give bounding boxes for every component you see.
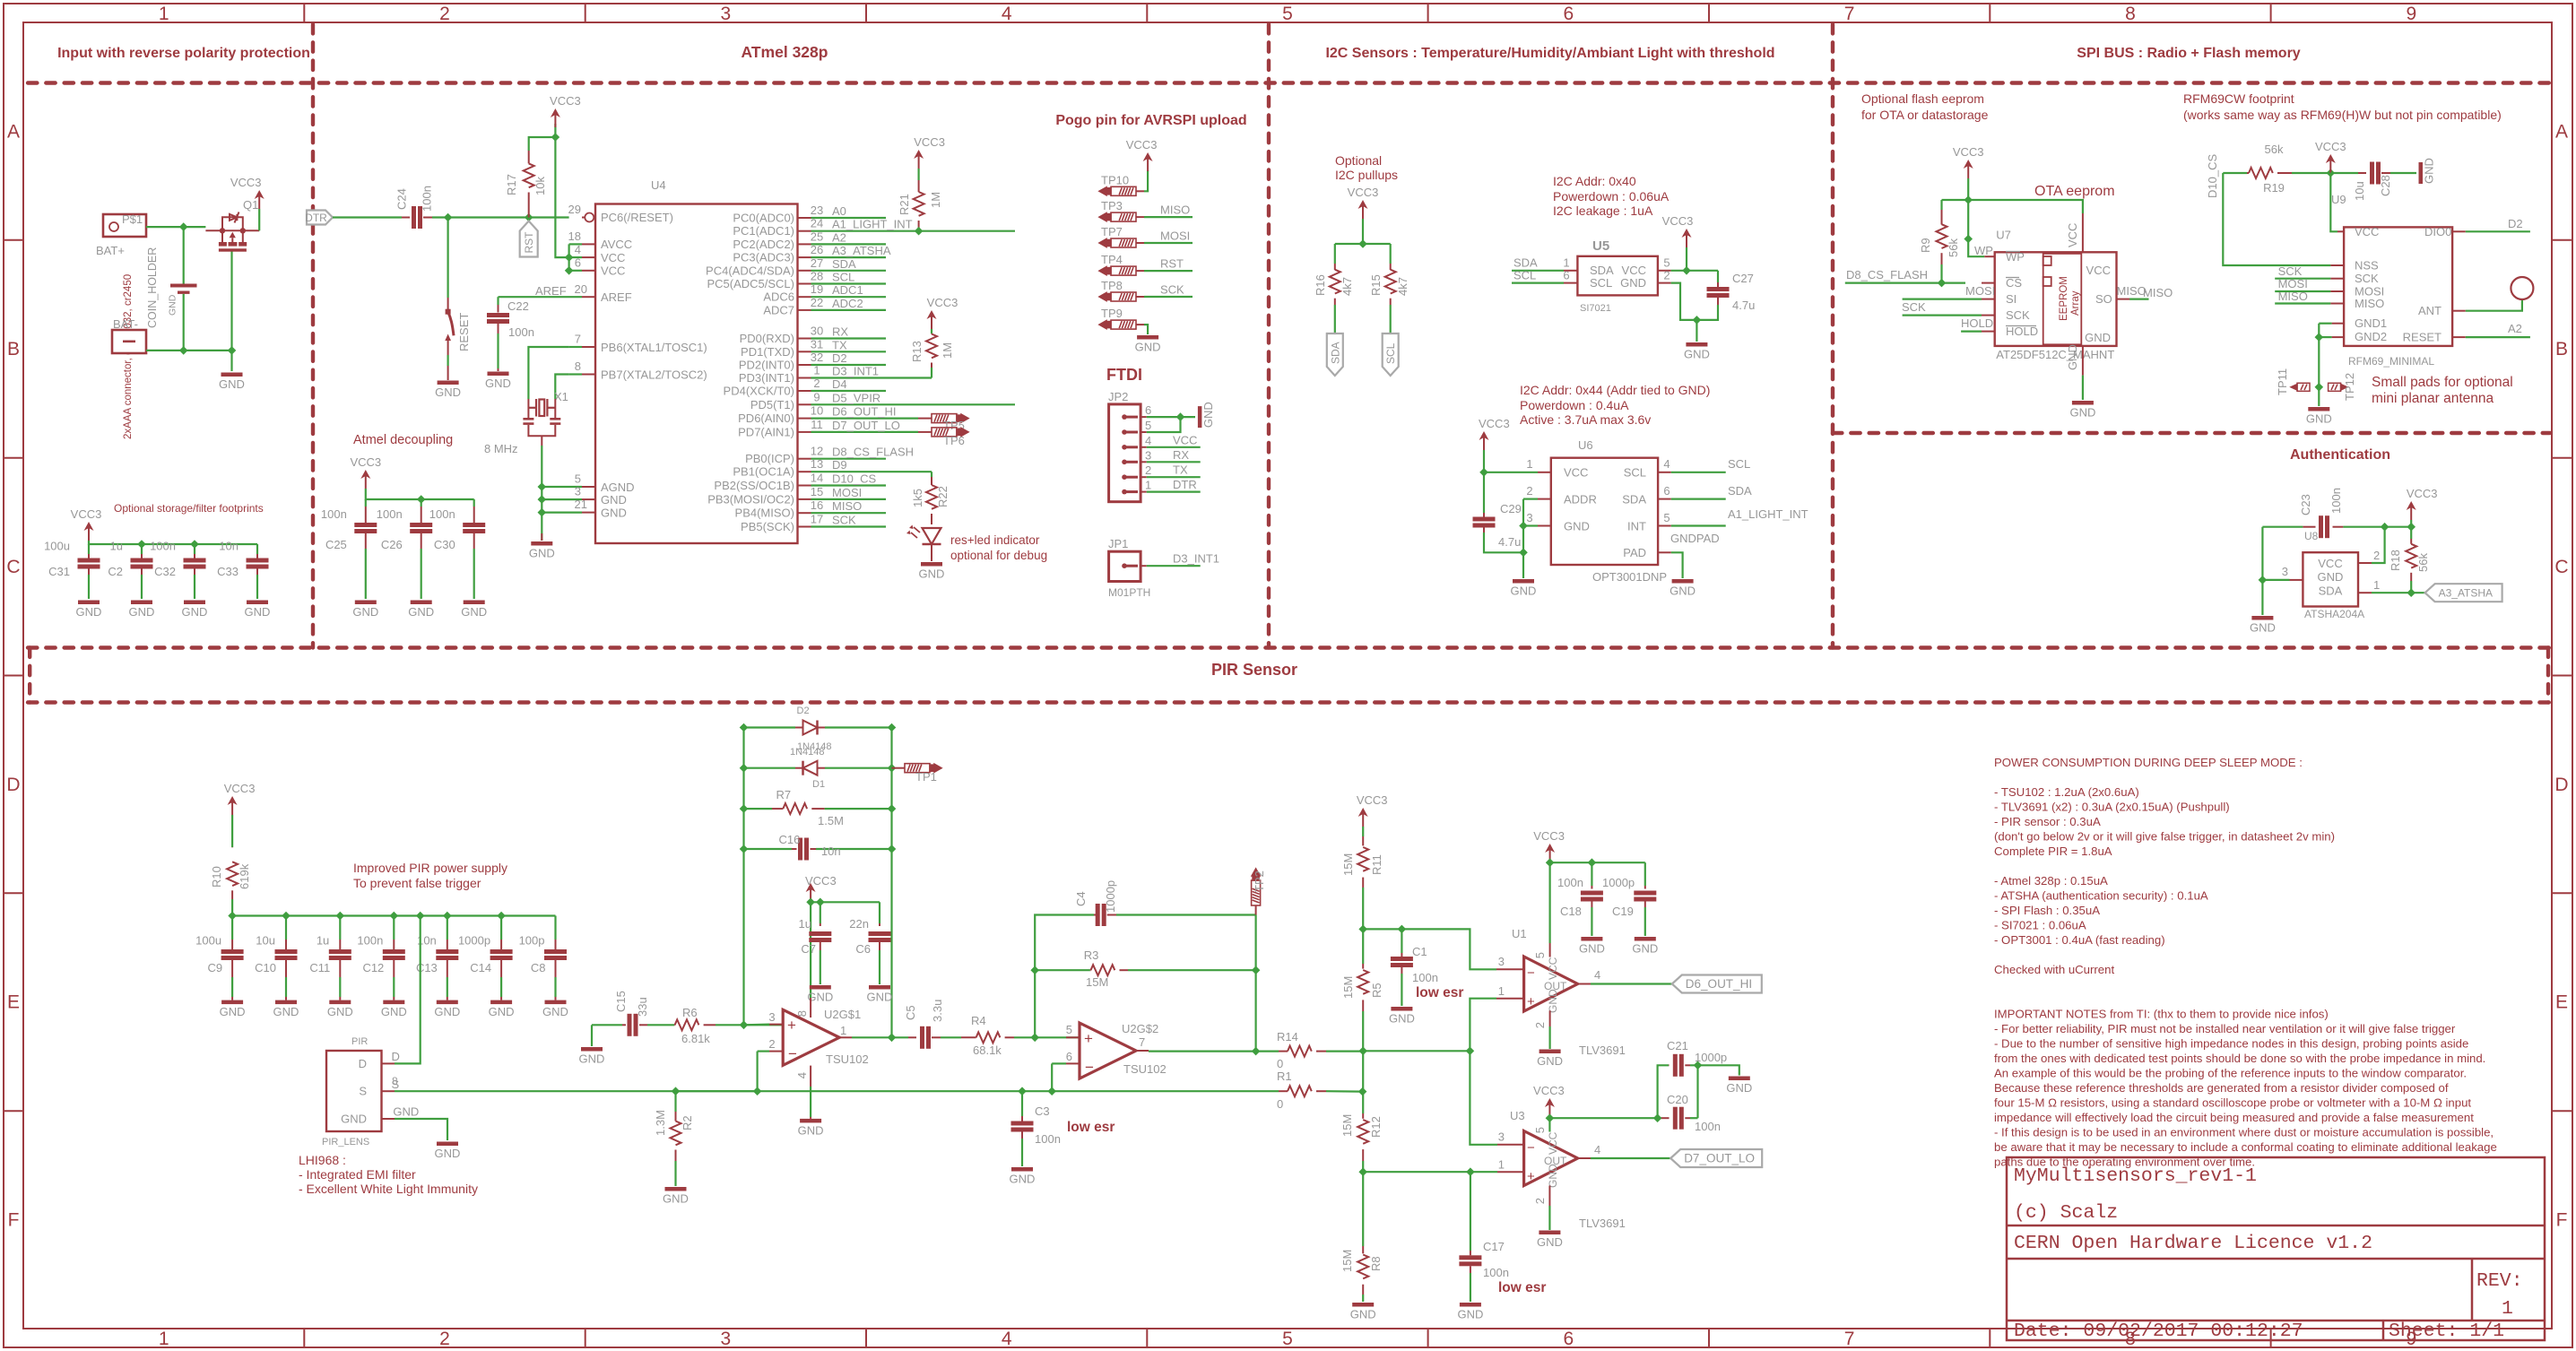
- svg-text:RX: RX: [1173, 448, 1189, 462]
- svg-text:10n: 10n: [821, 844, 841, 858]
- svg-text:JP2: JP2: [1108, 390, 1128, 403]
- svg-text:D2: D2: [797, 706, 810, 716]
- svg-text:SCL: SCL: [832, 271, 854, 284]
- svg-text:PIR Sensor: PIR Sensor: [1211, 661, 1297, 679]
- svg-text:D3_INT1: D3_INT1: [1173, 552, 1219, 566]
- pin U9 NSS: [2330, 264, 2344, 266]
- svg-text:impedance will effectively loa: impedance will effectively load the circ…: [1994, 1111, 2474, 1124]
- title block: [2007, 1157, 2545, 1340]
- svg-text:1: 1: [1145, 479, 1151, 492]
- svg-text:27: 27: [811, 256, 823, 270]
- svg-text:−: −: [1085, 1059, 1094, 1076]
- flag RST: [520, 221, 538, 257]
- svg-text:MyMultisensors_rev1-1: MyMultisensors_rev1-1: [2014, 1165, 2257, 1187]
- ground C32: [184, 601, 205, 605]
- svg-text:8: 8: [392, 1075, 398, 1087]
- resistor R16 4k7: [1334, 264, 1336, 270]
- svg-text:C21: C21: [1667, 1039, 1688, 1052]
- svg-text:6: 6: [1563, 1329, 1574, 1349]
- svg-text:C17: C17: [1483, 1240, 1505, 1253]
- svg-text:VCC3: VCC3: [550, 94, 581, 108]
- wire to gnd symbol: [1181, 416, 1196, 418]
- svg-text:RST: RST: [523, 231, 535, 254]
- svg-text:20: 20: [575, 282, 587, 296]
- connector JP2 FTDI: [1109, 404, 1141, 502]
- svg-text:I2C pullups: I2C pullups: [1335, 168, 1398, 182]
- wire C5 to R4: [941, 1036, 961, 1038]
- ground PIR: [437, 1142, 458, 1147]
- svg-text:Optional flash eeprom: Optional flash eeprom: [1861, 91, 1984, 106]
- svg-text:1: 1: [1498, 1158, 1505, 1172]
- test pad TP10: [1099, 186, 1136, 195]
- pin U1.4 output: [1578, 983, 1591, 985]
- svg-text:D6_OUT_HI: D6_OUT_HI: [1686, 977, 1752, 991]
- svg-text:RESET: RESET: [457, 313, 471, 351]
- svg-text:F: F: [2556, 1210, 2568, 1231]
- svg-text:5: 5: [1282, 4, 1293, 24]
- svg-text:U1: U1: [1512, 927, 1527, 940]
- svg-text:- For better reliability, PIR: - For better reliability, PIR must not b…: [1994, 1022, 2456, 1035]
- svg-text:8 MHz: 8 MHz: [484, 442, 518, 455]
- capacitor C11 1u: [339, 916, 341, 940]
- svg-text:C29: C29: [1500, 502, 1522, 515]
- svg-text:GND: GND: [1135, 341, 1161, 354]
- svg-text:−: −: [1527, 1140, 1535, 1156]
- svg-text:SCK: SCK: [2278, 264, 2303, 278]
- svg-text:ADC1: ADC1: [832, 283, 863, 297]
- svg-text:GND: GND: [1620, 276, 1646, 290]
- svg-text:PC3(ADC3): PC3(ADC3): [733, 251, 794, 264]
- svg-text:VCC3: VCC3: [2407, 487, 2438, 500]
- svg-text:AVCC: AVCC: [601, 238, 632, 251]
- wire crystal gnd bus: [542, 446, 582, 487]
- svg-text:ATmel 328p: ATmel 328p: [742, 43, 828, 61]
- svg-text:D: D: [2554, 775, 2568, 795]
- svg-text:S: S: [359, 1085, 367, 1098]
- svg-text:PB4(MISO): PB4(MISO): [735, 507, 794, 520]
- svg-text:U9: U9: [2331, 193, 2346, 206]
- power VCC3 (pullups): [1358, 200, 1368, 209]
- junction vcc/R9: [1964, 195, 1973, 204]
- pin U7 WP: [1984, 255, 1994, 257]
- pin U6.5 INT: [1658, 525, 1671, 527]
- svg-text:WP: WP: [2006, 250, 2025, 264]
- crystal load caps: [527, 399, 529, 418]
- svg-text:A2: A2: [832, 230, 846, 244]
- svg-text:0: 0: [1277, 1057, 1283, 1070]
- svg-text:C8: C8: [531, 961, 546, 974]
- test pad TP9: [1099, 320, 1136, 329]
- svg-text:GND: GND: [601, 507, 627, 520]
- svg-text:SCL: SCL: [1728, 457, 1750, 471]
- svg-text:5: 5: [1663, 256, 1670, 270]
- svg-text:optional for debug: optional for debug: [950, 549, 1047, 562]
- svg-text:5: 5: [1066, 1023, 1072, 1036]
- svg-text:4: 4: [1002, 4, 1012, 24]
- svg-text:RX: RX: [832, 325, 848, 339]
- svg-text:2: 2: [1145, 463, 1151, 477]
- svg-text:25: 25: [811, 229, 823, 243]
- svg-text:GND: GND: [867, 991, 893, 1004]
- feedback rail left: [1035, 915, 1094, 1038]
- pin U9 MOSI: [2275, 290, 2330, 292]
- comparator U1 TLV3691: [1524, 957, 1578, 1011]
- junction bus C14: [497, 912, 506, 921]
- ground C8: [545, 1000, 567, 1005]
- svg-text:C30: C30: [434, 538, 455, 551]
- capacitor C21 1000p: [1658, 1065, 1669, 1118]
- svg-text:U6: U6: [1578, 438, 1593, 452]
- switch RESET: [447, 298, 449, 311]
- resistor R10 619k: [231, 815, 233, 847]
- svg-text:C7: C7: [801, 942, 816, 956]
- svg-text:619k: 619k: [238, 863, 251, 889]
- svg-text:D2: D2: [832, 351, 847, 365]
- svg-text:MISO: MISO: [1160, 204, 1190, 217]
- pin U2G$1.3 +in: [769, 1024, 783, 1026]
- junction out right: [1252, 1047, 1261, 1056]
- svg-text:PAD: PAD: [1623, 546, 1646, 559]
- svg-text:18: 18: [568, 229, 581, 243]
- svg-text:15M: 15M: [1340, 1250, 1354, 1272]
- capacitor C12 100n: [393, 916, 395, 940]
- svg-text:GND: GND: [2423, 158, 2436, 184]
- svg-text:GND: GND: [2250, 621, 2276, 635]
- svg-text:AT25DF512C_MAHNT: AT25DF512C_MAHNT: [1996, 348, 2114, 361]
- svg-text:1u: 1u: [317, 934, 329, 948]
- svg-text:100n: 100n: [357, 934, 383, 948]
- capacitor C28 10u: [2370, 162, 2374, 185]
- pin U8.3: [2290, 579, 2303, 581]
- svg-text:100n: 100n: [2329, 488, 2343, 514]
- svg-text:C1: C1: [1412, 945, 1427, 958]
- ground C14: [490, 1000, 512, 1005]
- svg-text:GND: GND: [434, 1005, 460, 1018]
- svg-text:3: 3: [720, 4, 731, 24]
- svg-text:100n: 100n: [150, 540, 176, 553]
- test pad TP4: [1099, 266, 1136, 275]
- svg-text:- Atmel 328p : 0.15uA: - Atmel 328p : 0.15uA: [1994, 874, 2108, 888]
- wire JP2 RX: [1147, 461, 1201, 463]
- svg-text:(don't go below 2v or it will: (don't go below 2v or it will give false…: [1994, 830, 2335, 844]
- svg-text:Q1: Q1: [243, 198, 258, 212]
- wire BAT+ to Q1: [146, 226, 205, 228]
- capacitor C18 100n: [1591, 862, 1592, 886]
- pin U1.5: [1549, 943, 1551, 957]
- svg-text:C24: C24: [395, 188, 409, 210]
- svg-text:GND: GND: [1684, 348, 1710, 361]
- svg-text:GND: GND: [219, 377, 245, 391]
- test pad TP1: [892, 767, 906, 769]
- pin 14 PB2(SS/OC1B) net D10_CS: [798, 485, 811, 487]
- svg-text:TLV3691: TLV3691: [1579, 1044, 1626, 1057]
- junction C17 col: [1466, 1167, 1475, 1176]
- pin U3.3: [1497, 1144, 1524, 1146]
- svg-text:1M: 1M: [929, 192, 942, 208]
- wire AREF to C22: [499, 296, 583, 298]
- pin U7 SO (MISO): [2117, 299, 2130, 300]
- wire R15 to SCL flag: [1390, 305, 1392, 333]
- junction C7 column: [816, 898, 825, 907]
- svg-text:GND: GND: [2318, 570, 2344, 584]
- pin U6.6 SDA: [1658, 498, 1671, 500]
- svg-text:3: 3: [1145, 448, 1151, 462]
- svg-text:R3: R3: [1084, 948, 1099, 962]
- section titles: [57, 43, 2390, 679]
- svg-text:1000p: 1000p: [458, 934, 490, 948]
- capacitor C22 100n: [497, 297, 499, 305]
- svg-text:6: 6: [1563, 4, 1574, 24]
- svg-text:SI: SI: [2006, 292, 2017, 306]
- ground C17: [1460, 1303, 1481, 1307]
- pin U9 DIO0 net D2: [2452, 230, 2466, 232]
- pin U9 SCK: [2275, 278, 2330, 280]
- svg-text:GND: GND: [1670, 585, 1696, 598]
- svg-text:PC1(ADC1): PC1(ADC1): [733, 224, 794, 238]
- capacitor C25 100n: [365, 499, 367, 507]
- svg-text:R17: R17: [505, 174, 518, 195]
- svg-text:X1: X1: [554, 390, 568, 403]
- svg-text:VCC3: VCC3: [1533, 1084, 1565, 1097]
- svg-text:GND: GND: [798, 1123, 824, 1137]
- svg-text:Powerdown : 0.4uA: Powerdown : 0.4uA: [1520, 398, 1629, 412]
- svg-text:100n: 100n: [1035, 1132, 1061, 1146]
- svg-text:GND: GND: [1201, 402, 1215, 428]
- capacitor C23 100n: [2262, 526, 2303, 528]
- svg-text:15M: 15M: [1340, 1114, 1354, 1137]
- pin U7 SCK: [1903, 315, 1982, 316]
- junction C23/pin2: [2381, 523, 2390, 532]
- ground U4: [541, 533, 542, 541]
- svg-text:8: 8: [795, 1010, 809, 1017]
- svg-text:VCC3: VCC3: [1126, 138, 1158, 152]
- svg-text:A0: A0: [832, 204, 846, 218]
- svg-text:- Due to the number of sensiti: - Due to the number of sensitive high im…: [1994, 1037, 2468, 1051]
- svg-text:56k: 56k: [1947, 238, 1960, 257]
- connector P$1 (BAT+): [103, 214, 146, 237]
- junction bus C12: [390, 912, 399, 921]
- feedback rail right / TP2: [1254, 915, 1256, 1052]
- svg-text:TP1: TP1: [915, 770, 937, 784]
- svg-text:R18: R18: [2389, 550, 2402, 571]
- svg-text:TX: TX: [1173, 463, 1188, 477]
- svg-text:1.3M: 1.3M: [654, 1110, 667, 1136]
- capacitor C33 10n: [256, 544, 258, 554]
- capacitor C9 100u: [231, 916, 233, 940]
- svg-text:1000p: 1000p: [1104, 880, 1117, 913]
- wire BAT- to gate/GND: [146, 350, 232, 351]
- junction node2: [1358, 1047, 1367, 1056]
- svg-text:LHI968 :: LHI968 :: [299, 1153, 346, 1167]
- svg-text:MISO: MISO: [2143, 286, 2173, 299]
- svg-text:7: 7: [1844, 1329, 1855, 1349]
- pin U1.1: [1496, 998, 1524, 1000]
- svg-text:- SI7021 : 0.06uA: - SI7021 : 0.06uA: [1994, 919, 2086, 932]
- svg-text:PD3(INT1): PD3(INT1): [739, 371, 794, 385]
- svg-text:31: 31: [811, 337, 823, 351]
- svg-text:2: 2: [1533, 1198, 1547, 1204]
- resistor R8 15M: [1362, 1172, 1364, 1246]
- capacitor C13 10n: [447, 916, 448, 940]
- pin 24 PC1(ADC1) net A1_LIGHT_INT: [798, 230, 811, 232]
- svg-text:B: B: [2555, 339, 2568, 359]
- svg-text:MOSI: MOSI: [2278, 277, 2308, 290]
- svg-text:1: 1: [840, 1024, 846, 1037]
- resistor R7 1.5M: [744, 808, 773, 810]
- junction U5 vcc: [1682, 266, 1691, 275]
- svg-text:ANT: ANT: [2418, 304, 2442, 317]
- svg-text:R2: R2: [681, 1115, 694, 1130]
- svg-text:5: 5: [1145, 419, 1151, 432]
- svg-text:GND: GND: [1537, 1235, 1563, 1249]
- svg-text:GND: GND: [2085, 331, 2111, 344]
- junction -in/S line: [753, 1087, 762, 1096]
- IC U9 RFM69 radio: [2344, 227, 2452, 346]
- ground U7: [2072, 401, 2094, 405]
- capacitor C29 4.7u: [1483, 472, 1485, 513]
- power VCC3 (PIR): [228, 796, 238, 805]
- svg-text:PC6(/RESET): PC6(/RESET): [601, 211, 673, 224]
- svg-text:21: 21: [575, 498, 587, 511]
- ladder rails: [742, 728, 744, 1026]
- pin U6.3 GND: [1538, 525, 1551, 527]
- junction U5 gnd: [1693, 316, 1702, 325]
- svg-text:C14: C14: [470, 961, 491, 974]
- svg-text:10n: 10n: [219, 540, 239, 553]
- svg-text:RESET: RESET: [2403, 331, 2442, 344]
- pin U2G$1.4 / ground: [810, 1066, 811, 1087]
- svg-text:C27: C27: [1732, 272, 1754, 285]
- svg-text:U4: U4: [651, 178, 666, 192]
- svg-text:- OPT3001 : 0.4uA (fast readin: - OPT3001 : 0.4uA (fast reading): [1994, 933, 2165, 947]
- svg-text:VCC3: VCC3: [230, 176, 262, 189]
- svg-text:SCK: SCK: [832, 514, 856, 527]
- svg-text:PB1(OC1A): PB1(OC1A): [733, 465, 794, 479]
- wire DTR to C24: [333, 216, 402, 218]
- ground C11: [329, 1000, 351, 1005]
- pin 4 VCC: [582, 256, 595, 258]
- svg-text:Because these reference thresh: Because these reference thresholds are g…: [1994, 1081, 2449, 1095]
- pin U1.3: [1496, 968, 1524, 970]
- svg-text:SDA: SDA: [1514, 256, 1538, 270]
- svg-text:D: D: [6, 775, 20, 795]
- pin 8 PB7(XTAL2/TOSC2): [582, 374, 595, 376]
- junction C1: [1398, 925, 1407, 934]
- svg-text:Sheet: 1/1: Sheet: 1/1: [2389, 1321, 2504, 1342]
- svg-text:PB0(ICP): PB0(ICP): [745, 452, 794, 465]
- junction vcc/C7: [806, 898, 815, 907]
- wire D8_CS_FLASH: [1845, 282, 1965, 284]
- svg-text:VCC3: VCC3: [2315, 140, 2346, 153]
- pin U3.4 output: [1578, 1157, 1591, 1159]
- EEPROM array inner box: [2043, 254, 2082, 344]
- pin 12 PB0(ICP) net D8_CS_FLASH: [798, 458, 811, 460]
- svg-text:2: 2: [439, 1329, 450, 1349]
- svg-text:D: D: [392, 1050, 400, 1063]
- svg-text:2: 2: [813, 377, 820, 390]
- junction battery top: [179, 222, 188, 231]
- svg-text:from the ones with dedicated t: from the ones with dedicated test points…: [1994, 1052, 2485, 1065]
- wire addr/gnd rail: [1522, 499, 1524, 578]
- ground C9: [221, 1000, 243, 1005]
- svg-text:GND: GND: [2069, 406, 2095, 420]
- wire TP10 to VCC3: [1144, 170, 1148, 191]
- ground C30: [464, 601, 485, 605]
- junction bus C32: [190, 540, 199, 549]
- svg-text:GND: GND: [579, 1052, 605, 1066]
- svg-text:TP8: TP8: [1101, 279, 1123, 292]
- ground C31: [78, 601, 100, 605]
- svg-text:33u: 33u: [636, 997, 649, 1017]
- svg-text:TP9: TP9: [1101, 307, 1123, 320]
- capacitor C16 10n: [744, 848, 793, 850]
- wire VCC bus pins 18/4/6: [568, 244, 569, 270]
- svg-text:6.81k: 6.81k: [681, 1032, 710, 1045]
- resistor R9 56k: [1940, 200, 1942, 210]
- junction bus C13: [443, 912, 452, 921]
- capacitor C26 100n: [421, 499, 422, 507]
- wire D9 to R22: [931, 472, 932, 477]
- svg-text:A2: A2: [2508, 322, 2522, 335]
- svg-text:C3: C3: [1035, 1104, 1050, 1118]
- op-amp U2G$1 TSU102: [783, 1009, 839, 1065]
- resistor R3 15M: [1089, 969, 1092, 971]
- svg-text:C32: C32: [154, 565, 176, 578]
- svg-text:GND: GND: [485, 377, 511, 390]
- svg-text:GND: GND: [1726, 1081, 1752, 1095]
- svg-text:1M: 1M: [941, 342, 954, 359]
- capacitor C1 100n: [1401, 929, 1402, 953]
- ground C33: [247, 601, 268, 605]
- svg-text:BAT-: BAT-: [113, 317, 138, 331]
- svg-text:100n: 100n: [1483, 1266, 1509, 1279]
- svg-text:PIR: PIR: [351, 1036, 368, 1047]
- junction R18/A3_ATSHA: [2407, 588, 2416, 597]
- capacitor C14 1000p: [500, 916, 502, 940]
- svg-text:- PIR sensor : 0.3uA: - PIR sensor : 0.3uA: [1994, 815, 2101, 828]
- diode D2 1N4148: [744, 726, 796, 728]
- power VCC3 (TP10): [1143, 152, 1153, 161]
- svg-text:BAT+: BAT+: [96, 244, 125, 257]
- svg-text:JP1: JP1: [1108, 537, 1128, 550]
- pin U5.1 SDA: [1564, 270, 1577, 272]
- svg-text:C25: C25: [325, 538, 347, 551]
- pin U6 PAD: [1658, 551, 1671, 553]
- svg-text:GND1: GND1: [2355, 316, 2387, 330]
- wire node1 to U1 -in: [1363, 929, 1496, 969]
- svg-text:OTA eeprom: OTA eeprom: [2034, 184, 2115, 199]
- svg-text:D2: D2: [2508, 217, 2523, 230]
- svg-text:D5_VPIR: D5_VPIR: [832, 391, 880, 404]
- ladder junctions right: [888, 723, 897, 732]
- junction out/ladder right: [888, 1034, 897, 1043]
- svg-text:Optional storage/filter footpr: Optional storage/filter footprints: [114, 502, 264, 515]
- ground C15: [581, 1047, 603, 1052]
- svg-text:U2G$1: U2G$1: [824, 1008, 861, 1021]
- pin U7 HOLD: [1982, 331, 1995, 333]
- svg-text:4k7: 4k7: [1396, 277, 1409, 296]
- svg-text:22: 22: [811, 296, 823, 309]
- svg-text:100n: 100n: [1412, 971, 1438, 984]
- svg-text:VCC3: VCC3: [350, 455, 381, 469]
- svg-text:INT: INT: [1627, 520, 1646, 533]
- pin JP2.5: [1123, 431, 1138, 434]
- svg-text:R22: R22: [936, 486, 950, 507]
- capacitor C20 100n: [1549, 1117, 1657, 1119]
- svg-text:1000p: 1000p: [1695, 1051, 1727, 1064]
- svg-text:7: 7: [1844, 4, 1855, 24]
- svg-text:32: 32: [811, 351, 823, 364]
